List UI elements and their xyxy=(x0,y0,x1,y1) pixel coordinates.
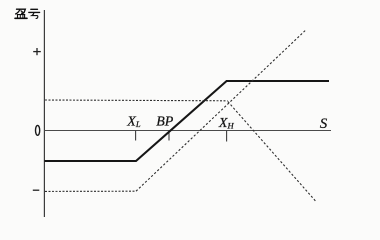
tick XL xyxy=(135,131,137,141)
label yingkui 盈 (drawn strokes) xyxy=(15,9,27,18)
tick XH xyxy=(226,131,228,142)
label yingkui 亏 (drawn strokes) xyxy=(29,9,40,18)
x-axis xyxy=(44,130,331,132)
tick BP xyxy=(168,131,170,141)
svg-text:XL: XL xyxy=(126,115,141,130)
rising dashed diagonal xyxy=(136,30,306,191)
falling dashed diagonal xyxy=(228,102,316,202)
y-axis xyxy=(43,10,45,217)
minus label xyxy=(33,189,40,191)
svg-text:BP: BP xyxy=(156,115,174,130)
hedged profit solid line xyxy=(44,81,329,161)
svg-text:XH: XH xyxy=(218,116,235,131)
zero label xyxy=(36,125,40,135)
plus label xyxy=(33,48,41,55)
lower dashed horizontal xyxy=(45,190,136,192)
svg-text:S: S xyxy=(320,116,328,132)
upper dashed horizontal xyxy=(45,99,228,102)
